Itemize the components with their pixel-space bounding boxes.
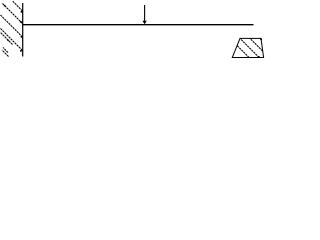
- hatch junction dot J3: [21, 36, 23, 38]
- support hatch junction dot bottom: [258, 56, 260, 58]
- hatch stroke-end dot S1: [4, 5, 6, 7]
- hatch stroke-end dot E: [7, 40, 9, 42]
- right support hatch 1: [240, 38, 259, 57]
- wall hatch stroke D: [0, 28, 23, 51]
- wall face line (left fixed support): [22, 3, 24, 57]
- wall hatch stroke G: [2, 50, 9, 57]
- hatch junction dot J4: [20, 50, 22, 52]
- wall hatch stroke E: [0, 32, 13, 45]
- wall hatch stroke C: [0, 15, 23, 38]
- load arrow P: head: [142, 21, 146, 24]
- hatch junction dot at beam corner: [20, 21, 22, 23]
- hatch junction dot J1: [21, 11, 23, 13]
- right support hatch 2: [250, 38, 263, 51]
- support hatch junction dot top-right: [260, 39, 262, 41]
- right support hatch 4: [237, 46, 249, 58]
- wall hatch stroke A: [13, 1, 23, 11]
- wall hatch stroke B: [3, 4, 23, 24]
- right support hatch 3: [260, 38, 262, 40]
- beam (horizontal member): [22, 24, 253, 26]
- wall hatch stroke F: [3, 48, 8, 53]
- right support: trapezoid outline: [232, 38, 263, 57]
- load arrow P: shaft: [144, 5, 146, 22]
